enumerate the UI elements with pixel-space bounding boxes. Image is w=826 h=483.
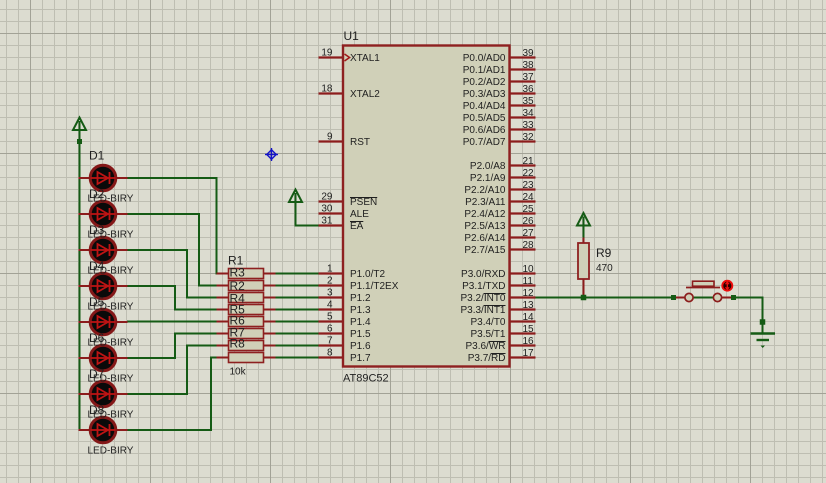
wire: D8 vertical jog up bbox=[210, 358, 212, 432]
svg-text:P2.4/A12: P2.4/A12 bbox=[464, 209, 506, 220]
pin: U1 right at y=357.5 bbox=[510, 356, 536, 358]
pin: U1 left at y=93.5 bbox=[319, 92, 344, 94]
pin: U1 right at y=201.5 bbox=[510, 200, 536, 202]
pin: U1 left at y=333.5 bbox=[319, 332, 344, 334]
svg-text:P0.5/AD5: P0.5/AD5 bbox=[463, 113, 506, 124]
svg-text:P1.2: P1.2 bbox=[350, 293, 371, 304]
svg-text:P0.6/AD6: P0.6/AD6 bbox=[463, 125, 506, 136]
wire: R row1 to U1 pin 1 bbox=[276, 273, 319, 275]
svg-text:9: 9 bbox=[327, 132, 333, 143]
svg-text:P1.7: P1.7 bbox=[350, 353, 371, 364]
pin: LED D8 anode bbox=[79, 429, 90, 431]
pin: R8 left bbox=[217, 357, 230, 359]
LED D8 (LED-BIRY) bbox=[90, 417, 116, 443]
svg-text:P1.3: P1.3 bbox=[350, 305, 371, 316]
pin: U1 right at y=177.5 bbox=[510, 176, 536, 178]
wire: R row8 to U1 pin 8 bbox=[276, 357, 319, 359]
svg-text:P0.7/AD7: P0.7/AD7 bbox=[463, 137, 506, 148]
pin: U1 left at y=273.5 bbox=[319, 272, 344, 274]
svg-text:5: 5 bbox=[327, 312, 333, 323]
wire: D2 vertical jog bbox=[198, 213, 200, 286]
wire: into R row6 bbox=[174, 333, 217, 335]
pin: U1 left at y=321.5 bbox=[319, 320, 344, 322]
wire: to EA pin bbox=[295, 225, 319, 227]
pin: R7 left bbox=[217, 345, 230, 347]
svg-text:26: 26 bbox=[523, 216, 535, 227]
resistor R7 body (10k) bbox=[229, 341, 264, 351]
wire: between button terminals bbox=[693, 297, 714, 299]
svg-text:LED-BIRY: LED-BIRY bbox=[88, 410, 134, 421]
pin: R9 top bbox=[583, 238, 585, 244]
svg-text:P0.3/AD3: P0.3/AD3 bbox=[463, 89, 506, 100]
pin: R6 left bbox=[217, 333, 230, 335]
ground symbol bbox=[751, 334, 776, 349]
pin: U1 right at y=333.5 bbox=[510, 332, 536, 334]
junction: ground wire bbox=[760, 319, 766, 325]
svg-text:4: 4 bbox=[327, 300, 333, 311]
svg-text:R8: R8 bbox=[230, 337, 246, 351]
svg-text:10: 10 bbox=[523, 264, 535, 275]
svg-text:30: 30 bbox=[321, 204, 333, 215]
svg-text:U1: U1 bbox=[344, 29, 360, 43]
resistor R8 body (10k) bbox=[229, 353, 264, 363]
wire: D7 vertical jog up bbox=[186, 346, 188, 396]
overline INT1 bbox=[484, 305, 506, 307]
pin: LED D5 cathode bbox=[117, 321, 128, 323]
overline INT0 bbox=[484, 293, 506, 295]
wire: D4 vertical jog bbox=[174, 285, 176, 310]
svg-text:28: 28 bbox=[523, 240, 535, 251]
pin: U1 right at y=249.5 bbox=[510, 248, 536, 250]
pin: LED D2 anode bbox=[79, 213, 90, 215]
wire: R row7 to U1 pin 7 bbox=[276, 345, 319, 347]
pin: LED D7 cathode bbox=[117, 393, 128, 395]
svg-text:16: 16 bbox=[523, 336, 535, 347]
svg-text:P2.1/A9: P2.1/A9 bbox=[470, 173, 506, 184]
pin: R8 right bbox=[263, 357, 276, 359]
wire: LED D4 cathode horizontal bbox=[127, 285, 175, 287]
pin: U1 left at y=201.5 bbox=[319, 200, 344, 202]
resistor R1 body (10k) bbox=[229, 269, 264, 279]
wire: EA power stem bbox=[295, 202, 297, 226]
wire: LED D8 cathode horizontal bbox=[127, 429, 211, 431]
wire: D1 vertical jog bbox=[216, 177, 218, 274]
svg-text:LED-BIRY: LED-BIRY bbox=[88, 446, 134, 457]
pin: R7 right bbox=[263, 345, 276, 347]
LED D1 (LED-BIRY) bbox=[90, 165, 116, 191]
svg-text:P1.6: P1.6 bbox=[350, 341, 371, 352]
IC U1 AT89C52 body bbox=[343, 46, 510, 367]
overline WR bbox=[489, 341, 506, 343]
pin: U1 right at y=345.5 bbox=[510, 344, 536, 346]
svg-text:15: 15 bbox=[523, 324, 535, 335]
pin: U1 right at y=273.5 bbox=[510, 272, 536, 274]
pin: U1 right at y=225.5 bbox=[510, 224, 536, 226]
origin crosshair marker bbox=[265, 148, 278, 161]
svg-text:12: 12 bbox=[523, 288, 535, 299]
svg-text:P0.4/AD4: P0.4/AD4 bbox=[463, 101, 506, 112]
pin: U1 right at y=189.5 bbox=[510, 188, 536, 190]
svg-text:LED-BIRY: LED-BIRY bbox=[88, 230, 134, 241]
svg-text:25: 25 bbox=[523, 204, 535, 215]
svg-text:24: 24 bbox=[523, 192, 535, 203]
pin: U1 right at y=297.5 bbox=[510, 296, 536, 298]
svg-text:RST: RST bbox=[350, 137, 370, 148]
pin: U1 right at y=237.5 bbox=[510, 236, 536, 238]
svg-text:33: 33 bbox=[523, 120, 535, 131]
resistor R5 body (10k) bbox=[229, 317, 264, 327]
svg-text:13: 13 bbox=[523, 300, 535, 311]
pin: R6 right bbox=[263, 333, 276, 335]
svg-text:P2.7/A15: P2.7/A15 bbox=[464, 245, 506, 256]
wire: LED D1 cathode horizontal bbox=[127, 177, 217, 179]
pin: U1 right at y=285.5 bbox=[510, 284, 536, 286]
pin: R9 bottom bbox=[583, 279, 585, 298]
svg-text:11: 11 bbox=[523, 276, 534, 287]
wire: R row4 to U1 pin 4 bbox=[276, 309, 319, 311]
interactive toggle marker bbox=[722, 281, 732, 291]
pin: U1 right at y=141.5 bbox=[510, 140, 536, 142]
pin: R4 left bbox=[217, 309, 230, 311]
pin: LED D5 anode bbox=[79, 321, 90, 323]
wire: LED D5 to R row5 straight bbox=[127, 321, 217, 323]
resistor R6 body (10k) bbox=[229, 329, 264, 339]
LED D4 (LED-BIRY) bbox=[90, 273, 116, 299]
svg-text:P3.6/WR: P3.6/WR bbox=[465, 341, 505, 352]
svg-text:P3.5/T1: P3.5/T1 bbox=[470, 329, 505, 340]
LED D5 (LED-BIRY) bbox=[90, 309, 116, 335]
svg-text:37: 37 bbox=[523, 72, 535, 83]
wire: P3.2/INT0 net to button bbox=[536, 297, 677, 299]
svg-text:P1.0/T2: P1.0/T2 bbox=[350, 269, 385, 280]
pin: LED D3 cathode bbox=[117, 249, 128, 251]
svg-text:P3.7/RD: P3.7/RD bbox=[468, 353, 506, 364]
svg-text:3: 3 bbox=[327, 288, 333, 299]
svg-text:470: 470 bbox=[596, 263, 613, 274]
push button actuator bbox=[686, 281, 720, 287]
overline PSEN bbox=[350, 197, 377, 199]
pin: LED D7 anode bbox=[79, 393, 90, 395]
pin: button left bbox=[676, 297, 685, 299]
svg-text:D1: D1 bbox=[89, 149, 105, 163]
wire: down to ground bbox=[762, 297, 764, 323]
svg-text:LED-BIRY: LED-BIRY bbox=[88, 374, 134, 385]
svg-text:39: 39 bbox=[523, 48, 535, 59]
resistor R2 body (10k) bbox=[229, 281, 264, 291]
pin: U1 left at y=357.5 bbox=[319, 356, 344, 358]
pin: R1 right bbox=[263, 273, 276, 275]
pin: LED D1 cathode bbox=[117, 177, 128, 179]
pin: LED D6 anode bbox=[79, 357, 90, 359]
svg-text:18: 18 bbox=[321, 84, 333, 95]
power terminal (EA) bbox=[289, 190, 302, 203]
wire: anode bus vertical bbox=[79, 144, 81, 430]
pin: U1 left at y=297.5 bbox=[319, 296, 344, 298]
pin: U1 left at y=213.5 bbox=[319, 212, 344, 214]
wire: into R row1 bbox=[216, 273, 218, 275]
svg-text:XTAL2: XTAL2 bbox=[350, 89, 380, 100]
wire: D6 vertical jog up bbox=[174, 334, 176, 360]
svg-text:EA: EA bbox=[350, 221, 364, 232]
svg-text:LED-BIRY: LED-BIRY bbox=[88, 194, 134, 205]
junction square at bus top bbox=[77, 139, 82, 144]
svg-text:P0.0/AD0: P0.0/AD0 bbox=[463, 53, 506, 64]
svg-text:P3.1/TXD: P3.1/TXD bbox=[462, 281, 505, 292]
svg-text:XTAL1: XTAL1 bbox=[350, 53, 380, 64]
wire: into R row3 bbox=[186, 297, 217, 299]
resistor R4 body (10k) bbox=[229, 305, 264, 315]
push button terminals bbox=[685, 293, 722, 301]
pin: LED D6 cathode bbox=[117, 357, 128, 359]
svg-text:P3.3/INT1: P3.3/INT1 bbox=[460, 305, 505, 316]
pin: LED D1 anode bbox=[79, 177, 90, 179]
svg-text:PSEN: PSEN bbox=[350, 197, 377, 208]
wire: LED D3 cathode horizontal bbox=[127, 249, 187, 251]
wire: into R row2 bbox=[198, 285, 217, 287]
XTAL1 clock mark bbox=[345, 54, 350, 61]
pin: U1 left at y=141.5 bbox=[319, 140, 344, 142]
pin: U1 left at y=285.5 bbox=[319, 284, 344, 286]
resistor R3 body (10k) bbox=[229, 293, 264, 303]
svg-text:29: 29 bbox=[321, 192, 333, 203]
pin: LED D2 cathode bbox=[117, 213, 128, 215]
wire: LED D6 cathode horizontal bbox=[127, 357, 175, 359]
pin: U1 right at y=81.5 bbox=[510, 80, 536, 82]
LED D7 (LED-BIRY) bbox=[90, 381, 116, 407]
svg-text:P2.3/A11: P2.3/A11 bbox=[465, 197, 506, 208]
pin: U1 right at y=57.5 bbox=[510, 56, 536, 58]
svg-text:19: 19 bbox=[321, 48, 333, 59]
svg-text:P2.6/A14: P2.6/A14 bbox=[464, 233, 506, 244]
svg-text:22: 22 bbox=[523, 168, 535, 179]
wire: ground pin bbox=[762, 322, 764, 334]
wire: R row2 to U1 pin 2 bbox=[276, 285, 319, 287]
svg-text:27: 27 bbox=[523, 228, 535, 239]
pin: LED D4 cathode bbox=[117, 285, 128, 287]
svg-text:23: 23 bbox=[523, 180, 535, 191]
svg-text:36: 36 bbox=[523, 84, 535, 95]
svg-text:35: 35 bbox=[523, 96, 535, 107]
svg-text:2: 2 bbox=[327, 276, 333, 287]
svg-text:P0.2/AD2: P0.2/AD2 bbox=[463, 77, 506, 88]
pin: R5 left bbox=[217, 321, 230, 323]
wire: into R row4 bbox=[174, 309, 217, 311]
svg-text:P2.0/A8: P2.0/A8 bbox=[470, 161, 506, 172]
LED D3 (LED-BIRY) bbox=[90, 237, 116, 263]
pin: U1 right at y=105.5 bbox=[510, 104, 536, 106]
junction: wire end at button right bbox=[731, 295, 736, 300]
svg-text:38: 38 bbox=[523, 60, 535, 71]
pin: R2 left bbox=[217, 285, 230, 287]
wire: LED D7 cathode horizontal bbox=[127, 393, 187, 395]
power pin stem bbox=[79, 130, 81, 140]
pin: R1 left bbox=[217, 273, 230, 275]
pin: U1 right at y=129.5 bbox=[510, 128, 536, 130]
svg-text:32: 32 bbox=[523, 132, 535, 143]
svg-text:ALE: ALE bbox=[350, 209, 369, 220]
junction: wire end at button left bbox=[671, 295, 676, 300]
svg-text:21: 21 bbox=[523, 156, 535, 167]
resistor R9 body (470) bbox=[578, 243, 589, 279]
svg-text:P0.1/AD1: P0.1/AD1 bbox=[463, 65, 506, 76]
pin: U1 right at y=321.5 bbox=[510, 320, 536, 322]
pin: R2 right bbox=[263, 285, 276, 287]
junction: R9/INT0 net bbox=[581, 295, 587, 301]
svg-text:P3.2/INT0: P3.2/INT0 bbox=[460, 293, 505, 304]
wire: into R row8 bbox=[210, 357, 217, 359]
pin: U1 right at y=93.5 bbox=[510, 92, 536, 94]
pin: U1 left at y=57.5 bbox=[319, 56, 344, 58]
power terminal (LED bus) bbox=[73, 118, 86, 131]
svg-text:34: 34 bbox=[523, 108, 535, 119]
svg-text:LED-BIRY: LED-BIRY bbox=[88, 338, 134, 349]
pin: U1 right at y=213.5 bbox=[510, 212, 536, 214]
overline RD bbox=[491, 353, 505, 355]
wire: R row6 to U1 pin 6 bbox=[276, 333, 319, 335]
svg-text:R9: R9 bbox=[596, 246, 612, 260]
pin: U1 right at y=309.5 bbox=[510, 308, 536, 310]
LED D6 (LED-BIRY) bbox=[90, 345, 116, 371]
svg-text:P3.0/RXD: P3.0/RXD bbox=[461, 269, 505, 280]
svg-text:1: 1 bbox=[327, 264, 333, 275]
svg-text:10k: 10k bbox=[230, 367, 247, 378]
svg-text:6: 6 bbox=[327, 324, 333, 335]
svg-text:P2.5/A13: P2.5/A13 bbox=[464, 221, 506, 232]
svg-text:31: 31 bbox=[321, 216, 333, 227]
pin: U1 right at y=165.5 bbox=[510, 164, 536, 166]
wire: D3 vertical jog bbox=[186, 249, 188, 298]
pin: LED D8 cathode bbox=[117, 429, 128, 431]
wire: LED D2 cathode horizontal bbox=[127, 213, 199, 215]
overline EA bbox=[350, 221, 363, 223]
pin: U1 left at y=225.5 bbox=[319, 224, 344, 226]
svg-text:LED-BIRY: LED-BIRY bbox=[88, 302, 134, 313]
pin: U1 right at y=69.5 bbox=[510, 68, 536, 70]
wire: into R row7 bbox=[186, 345, 217, 347]
pin: R4 right bbox=[263, 309, 276, 311]
power terminal (R9) bbox=[577, 213, 590, 226]
svg-text:LED-BIRY: LED-BIRY bbox=[88, 266, 134, 277]
wire: R9 power stem bbox=[583, 226, 585, 238]
pin: R3 right bbox=[263, 297, 276, 299]
pin: button right bbox=[722, 297, 732, 299]
wire: button to ground horizontal bbox=[736, 297, 763, 299]
wire: R row3 to U1 pin 3 bbox=[276, 297, 319, 299]
svg-text:8: 8 bbox=[327, 348, 333, 359]
svg-text:P2.2/A10: P2.2/A10 bbox=[464, 185, 506, 196]
pin: LED D3 anode bbox=[79, 249, 90, 251]
pin: U1 right at y=117.5 bbox=[510, 116, 536, 118]
pin: U1 left at y=309.5 bbox=[319, 308, 344, 310]
svg-text:P1.4: P1.4 bbox=[350, 317, 371, 328]
svg-text:R3: R3 bbox=[230, 266, 246, 280]
svg-text:P1.1/T2EX: P1.1/T2EX bbox=[350, 281, 399, 292]
svg-text:14: 14 bbox=[523, 312, 535, 323]
svg-text:P3.4/T0: P3.4/T0 bbox=[470, 317, 505, 328]
pin: R5 right bbox=[263, 321, 276, 323]
svg-text:7: 7 bbox=[327, 336, 333, 347]
pin: U1 left at y=345.5 bbox=[319, 344, 344, 346]
pin: LED D4 anode bbox=[79, 285, 90, 287]
svg-text:P1.5: P1.5 bbox=[350, 329, 371, 340]
LED D2 (LED-BIRY) bbox=[90, 201, 116, 227]
svg-text:17: 17 bbox=[523, 348, 535, 359]
wire: R row5 to U1 pin 5 bbox=[276, 321, 319, 323]
svg-text:AT89C52: AT89C52 bbox=[343, 373, 389, 385]
pin: R3 left bbox=[217, 297, 230, 299]
